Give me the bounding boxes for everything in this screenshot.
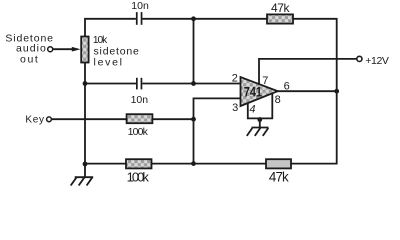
svg-text:out: out: [20, 53, 38, 65]
svg-text:4: 4: [249, 103, 255, 115]
svg-text:level: level: [94, 57, 123, 69]
svg-text:2: 2: [232, 72, 238, 84]
svg-text:Key: Key: [25, 115, 44, 126]
svg-text:10n: 10n: [131, 0, 149, 12]
svg-text:100k: 100k: [127, 169, 150, 184]
svg-text:+12V: +12V: [365, 55, 389, 67]
svg-text:7: 7: [262, 75, 268, 87]
svg-text:741: 741: [244, 84, 262, 100]
svg-text:6: 6: [284, 81, 290, 93]
svg-text:47k: 47k: [269, 170, 289, 185]
svg-text:100k: 100k: [128, 126, 149, 138]
svg-text:8: 8: [275, 94, 281, 106]
svg-text:10k: 10k: [93, 35, 108, 46]
svg-text:47k: 47k: [271, 1, 291, 15]
svg-text:3: 3: [232, 102, 238, 114]
svg-text:10n: 10n: [131, 94, 149, 106]
svg-text:sidetone: sidetone: [94, 46, 140, 58]
